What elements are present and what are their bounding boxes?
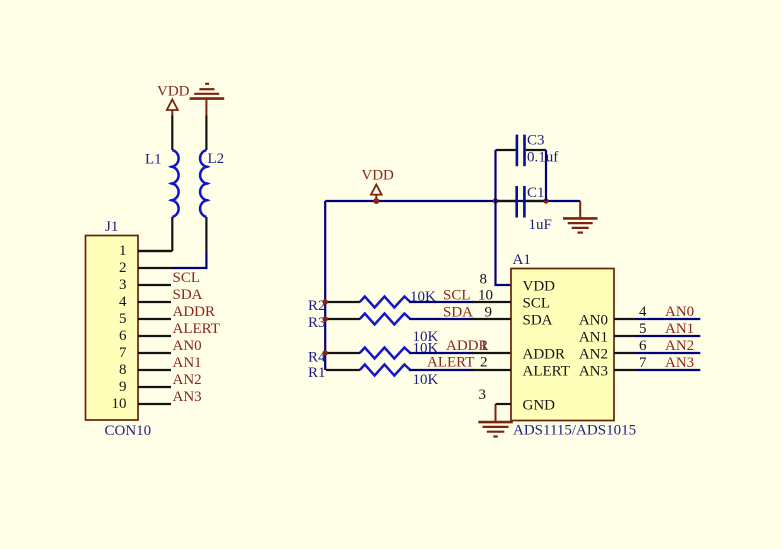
resistor R2: [308, 297, 410, 315]
wire L2 to J1 pin 2: [171, 252, 206, 269]
svg-text:AN1: AN1: [579, 330, 608, 346]
junction bus / R2: [323, 299, 328, 304]
svg-text:ADDR: ADDR: [173, 304, 216, 320]
svg-text:L2: L2: [208, 151, 225, 167]
wire VDD rail: [325, 200, 580, 202]
connector J1: [86, 219, 139, 420]
svg-text:10K: 10K: [413, 372, 439, 388]
svg-text:AN1: AN1: [665, 321, 694, 337]
svg-text:SCL: SCL: [523, 296, 551, 312]
svg-text:4: 4: [639, 304, 647, 320]
capacitor C1: [497, 185, 545, 218]
wire AN0: [635, 318, 700, 320]
svg-text:AN3: AN3: [173, 389, 202, 405]
wire AN1: [635, 335, 700, 337]
svg-text:AN2: AN2: [665, 338, 694, 354]
inductor L1: [145, 116, 179, 252]
A1 pin 3 (GND): [479, 387, 512, 404]
A1 pin 2 stub: [472, 355, 511, 371]
svg-text:AN2: AN2: [579, 347, 608, 363]
svg-text:SDA: SDA: [443, 305, 473, 321]
svg-text:ADDR: ADDR: [523, 347, 566, 363]
wire C3 left column: [494, 150, 496, 201]
svg-text:ALERT: ALERT: [523, 364, 570, 380]
ground (right of C1): [563, 201, 598, 233]
wire AN2: [635, 352, 700, 354]
svg-text:5: 5: [639, 321, 647, 337]
wire R2 to A1 SCL: [409, 301, 473, 303]
svg-text:10: 10: [478, 288, 493, 304]
power VDD (center): [361, 168, 394, 201]
svg-text:ADDR: ADDR: [446, 338, 489, 354]
J1 pin 5: [119, 311, 171, 327]
resistor R1: [308, 365, 410, 382]
J1 pin 6: [119, 328, 171, 344]
svg-text:6: 6: [639, 338, 647, 354]
svg-text:10: 10: [112, 396, 127, 412]
wire C3 right column: [545, 150, 547, 201]
A1 pin 5 (AN1): [614, 321, 647, 337]
A1 pin 6 (AN2): [614, 338, 647, 354]
IC A1 body: [511, 252, 614, 421]
A1 pin 10 stub: [472, 288, 511, 304]
ground (top, inverted earth): [190, 84, 225, 116]
svg-text:SDA: SDA: [523, 313, 553, 329]
svg-text:C3: C3: [527, 133, 545, 149]
junction VDD rail / VDD symbol: [373, 198, 379, 204]
junction bus / R4: [323, 350, 328, 355]
A1 pin 4 (AN0): [614, 304, 647, 320]
svg-text:SCL: SCL: [443, 288, 471, 304]
J1 pin 8: [119, 362, 171, 378]
power VDD (left): [157, 84, 190, 116]
inductor L2: [200, 116, 224, 252]
resistor R4: [308, 348, 410, 366]
J1 pin 4: [119, 294, 171, 310]
svg-text:VDD: VDD: [157, 84, 190, 100]
svg-text:AN3: AN3: [665, 355, 694, 371]
svg-text:AN0: AN0: [579, 313, 608, 329]
ground (A1 GND pin): [478, 404, 513, 437]
svg-text:A1: A1: [513, 252, 531, 268]
svg-text:AN0: AN0: [173, 338, 202, 354]
svg-text:2: 2: [119, 260, 127, 276]
svg-text:1: 1: [119, 243, 127, 259]
wire R3 to A1 SDA: [409, 318, 473, 320]
svg-text:8: 8: [480, 272, 488, 288]
svg-text:1uF: 1uF: [529, 217, 552, 233]
svg-text:AN0: AN0: [665, 304, 694, 320]
wire AN3: [635, 369, 700, 371]
svg-text:ALERT: ALERT: [427, 355, 474, 371]
svg-text:8: 8: [119, 362, 127, 378]
J1 pin 9: [119, 379, 171, 395]
svg-text:R1: R1: [308, 365, 326, 381]
wire L1 to J1 pin 1: [138, 250, 172, 252]
J1 pin 7: [119, 345, 171, 361]
wire pull-up bus: [324, 201, 326, 370]
svg-text:AN1: AN1: [173, 355, 202, 371]
svg-text:3: 3: [479, 387, 487, 403]
wire R1 to A1 ALERT: [409, 369, 473, 371]
svg-text:7: 7: [639, 355, 647, 371]
J1 pin 3: [119, 277, 171, 293]
junction VDD rail / C right column: [543, 198, 548, 203]
svg-text:SDA: SDA: [173, 287, 203, 303]
wire R4 to A1 ADDR: [409, 352, 473, 354]
svg-text:C1: C1: [527, 185, 545, 201]
svg-text:9: 9: [485, 305, 493, 321]
svg-text:4: 4: [119, 294, 127, 310]
svg-text:GND: GND: [523, 398, 556, 414]
capacitor C3: [496, 133, 547, 167]
J1 pin 10: [112, 396, 172, 412]
svg-text:VDD: VDD: [361, 168, 394, 184]
A1 pin 7 (AN3): [614, 355, 647, 371]
A1 pin 1 stub (ADDR): [472, 352, 511, 354]
svg-text:CON10: CON10: [105, 423, 152, 439]
wire VDD column to A1 pin 8: [496, 201, 512, 285]
svg-text:9: 9: [119, 379, 127, 395]
svg-text:2: 2: [480, 355, 488, 371]
svg-text:ADS1115/ADS1015: ADS1115/ADS1015: [513, 423, 636, 439]
svg-text:0.1uf: 0.1uf: [527, 150, 558, 166]
svg-text:3: 3: [119, 277, 127, 293]
svg-text:SCL: SCL: [173, 270, 201, 286]
J1 pin 2: [119, 260, 171, 276]
svg-text:5: 5: [119, 311, 127, 327]
svg-text:6: 6: [119, 328, 127, 344]
resistor R3: [308, 314, 410, 332]
svg-text:VDD: VDD: [523, 279, 556, 295]
svg-text:ALERT: ALERT: [173, 321, 220, 337]
A1 pin 9 stub: [472, 305, 511, 321]
J1 pin 1: [119, 243, 171, 259]
svg-text:7: 7: [119, 345, 127, 361]
svg-text:AN3: AN3: [579, 364, 608, 380]
svg-text:AN2: AN2: [173, 372, 202, 388]
svg-text:L1: L1: [145, 152, 162, 168]
svg-text:R3: R3: [308, 315, 326, 331]
svg-text:J1: J1: [105, 219, 118, 235]
svg-text:R2: R2: [308, 298, 326, 314]
junction bus / R3: [323, 316, 328, 321]
junction VDD rail / C column: [493, 198, 498, 203]
